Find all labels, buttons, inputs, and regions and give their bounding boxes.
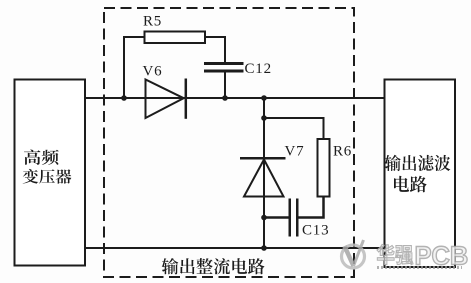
node: junction dot left leg / top rail: [121, 95, 127, 101]
label 输出整流电路 (stage name): [162, 258, 265, 274]
resistor R6: [318, 139, 330, 197]
svg-text:R5: R5: [143, 14, 162, 30]
resistor R5: [145, 32, 206, 44]
svg-text:V7: V7: [285, 144, 305, 160]
node: junction dot C13 tap: [261, 215, 267, 221]
svg-text:V6: V6: [143, 64, 163, 80]
capacitor C13 right plate: [296, 199, 299, 237]
wire: bottom rail from transformer to filter: [85, 247, 384, 249]
diode V7 (vertical, cathode bar on top): [240, 158, 286, 196]
node: junction dot R6 tap: [261, 115, 267, 121]
wire: R6 bottom to C13 right plate: [299, 197, 324, 218]
watermark logo circle: [342, 240, 365, 268]
wire: R5 left leg: [124, 37, 145, 98]
label 高频: [24, 150, 59, 165]
wire: top rail from transformer to filter: [85, 97, 384, 99]
node: junction dot V7 branch / top rail: [261, 95, 267, 101]
capacitor C13 left plate: [289, 199, 292, 237]
watermark 华强: [377, 244, 413, 264]
wire: tap to R6 top: [264, 118, 324, 139]
label 输出滤波: [385, 155, 451, 171]
diode V6 (on top rail): [146, 79, 186, 119]
capacitor C12 top plate: [204, 62, 244, 65]
watermark micro-text line: [377, 266, 462, 269]
wire: R5 right lead to C12: [205, 37, 225, 62]
wire: tap to C13 left plate: [264, 216, 289, 219]
capacitor C12 bottom plate: [204, 70, 244, 73]
label 电路: [394, 176, 427, 192]
node: junction dot C12 leg / top rail: [222, 95, 228, 101]
label 变压器: [23, 169, 72, 184]
svg-text:C13: C13: [302, 223, 329, 239]
wire: C12 to top rail: [224, 73, 226, 99]
block: output filter circuit: [385, 80, 456, 268]
dashed boundary box: output rectifier stage: [104, 8, 354, 277]
node: junction dot V7 branch / bottom rail: [261, 245, 267, 251]
svg-text:R6: R6: [333, 144, 352, 160]
svg-text:C12: C12: [245, 61, 272, 77]
block: high-frequency transformer: [15, 80, 86, 266]
wire: V7 branch vertical: [263, 98, 265, 248]
